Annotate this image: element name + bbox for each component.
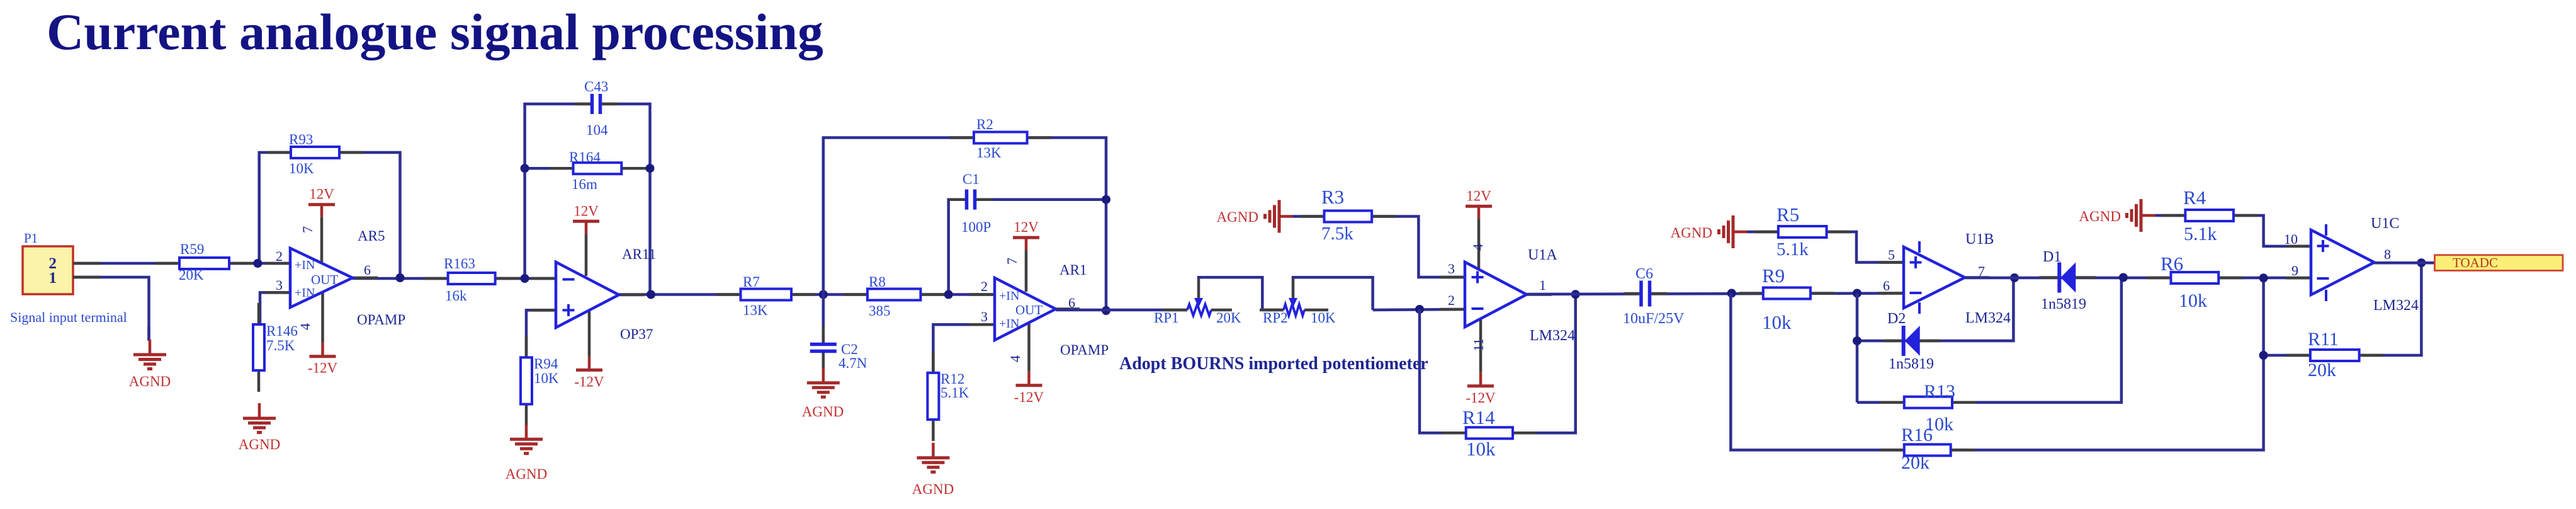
wire AR5 feedback loop via R93: [259, 152, 400, 278]
svg-text:R9: R9: [1762, 265, 1785, 287]
node R164 right: [646, 164, 655, 173]
svg-text:R2: R2: [976, 117, 993, 132]
svg-text:AGND: AGND: [912, 481, 954, 497]
node AR5 pin2: [253, 259, 262, 268]
svg-text:-12V: -12V: [1466, 390, 1496, 406]
svg-text:5.1k: 5.1k: [1777, 239, 1809, 260]
diode D2 1n5819: [1884, 340, 1904, 343]
svg-text:16k: 16k: [445, 288, 467, 304]
svg-text:104: 104: [586, 122, 608, 138]
svg-text:U1B: U1B: [1965, 231, 1994, 248]
op-amp U1C: [2286, 245, 2311, 248]
resistor R6: [2147, 277, 2171, 280]
svg-text:6: 6: [1883, 278, 1890, 294]
node U1C pin9: [2259, 273, 2268, 282]
svg-text:12V: 12V: [309, 186, 334, 202]
svg-text:R7: R7: [743, 274, 760, 290]
node R8/C1/AR1 pin2: [944, 290, 953, 299]
node U1A pin2: [1415, 305, 1424, 314]
wire U1B output to D1 to R6 to U1C pin9: [1965, 277, 2311, 280]
svg-text:LM324: LM324: [1530, 328, 1575, 344]
svg-text:C43: C43: [584, 79, 608, 94]
svg-text:100P: 100P: [961, 219, 991, 235]
svg-text:R3: R3: [1321, 186, 1344, 208]
svg-text:Adopt BOURNS imported potentio: Adopt BOURNS imported potentiometer: [1119, 354, 1428, 374]
svg-text:C6: C6: [1635, 266, 1653, 282]
wire RP1 wiper bridge: [1199, 277, 1262, 310]
potentiometer RP1: [1163, 309, 1187, 312]
node D1 cathode / R13: [2119, 273, 2128, 282]
node R164 left: [521, 164, 529, 173]
svg-text:5: 5: [1888, 247, 1895, 263]
wire R164 row: [525, 167, 650, 170]
svg-text:10k: 10k: [2179, 290, 2207, 311]
svg-text:AGND: AGND: [1671, 225, 1712, 241]
svg-text:2: 2: [1448, 292, 1455, 308]
op-amp AR1: [969, 293, 995, 296]
svg-text:AR1: AR1: [1059, 262, 1087, 278]
svg-text:7.5k: 7.5k: [1321, 224, 1353, 244]
wire R3 to U1A pin3: [1293, 217, 1465, 278]
svg-text:RP1: RP1: [1154, 310, 1179, 326]
wire R4 to U1C pin10: [2155, 215, 2311, 246]
svg-text:LM324: LM324: [2373, 297, 2419, 314]
svg-text:12V: 12V: [573, 203, 599, 219]
wire OP37 non-inverting input to R94: [526, 310, 556, 357]
capacitor C43: [590, 92, 602, 116]
svg-text:-12V: -12V: [574, 374, 604, 389]
svg-text:385: 385: [869, 303, 891, 319]
wire AR1 output to potentiometer chain to U1A pin2: [1056, 309, 1187, 312]
svg-text:3: 3: [1448, 261, 1455, 277]
ground AGND (R146): [258, 403, 261, 418]
svg-text:U1C: U1C: [2371, 215, 2399, 232]
svg-text:R164: R164: [569, 149, 601, 165]
svg-text:AGND: AGND: [1217, 209, 1258, 225]
node AR5 output: [396, 273, 405, 282]
ground AGND (R12): [932, 443, 935, 458]
svg-text:4.7N: 4.7N: [839, 355, 867, 371]
svg-text:3: 3: [276, 277, 283, 293]
svg-text:10K: 10K: [1311, 310, 1336, 326]
wire D2 row: [1857, 278, 2013, 341]
svg-text:7: 7: [1004, 258, 1020, 265]
svg-text:20K: 20K: [1216, 310, 1241, 326]
svg-text:1n5819: 1n5819: [2041, 296, 2086, 312]
svg-text:+IN: +IN: [999, 317, 1019, 331]
wire C2 branch: [822, 295, 825, 345]
resistor R13: [1880, 401, 1904, 404]
svg-text:AR11: AR11: [622, 246, 656, 262]
svg-text:R11: R11: [2308, 329, 2339, 350]
svg-text:9: 9: [2291, 263, 2298, 278]
capacitor C6: [1639, 279, 1652, 309]
svg-text:10uF/25V: 10uF/25V: [1623, 311, 1685, 327]
svg-text:R59: R59: [180, 241, 204, 257]
svg-text:OPAMP: OPAMP: [357, 312, 405, 328]
svg-text:4: 4: [1470, 244, 1486, 251]
ground AGND (C2): [822, 368, 825, 383]
wire D2 loop and R13 drop: [1856, 294, 1859, 403]
svg-text:+IN: +IN: [295, 258, 315, 272]
wire RP2 wiper bridge: [1293, 277, 1373, 310]
wire AR5 pin3 to R146: [260, 292, 290, 324]
wire R16 bottom run: [1731, 278, 2263, 450]
svg-text:10k: 10k: [1466, 438, 1496, 460]
svg-text:OUT: OUT: [1015, 302, 1042, 317]
svg-text:R163: R163: [444, 256, 475, 272]
svg-text:R93: R93: [289, 132, 313, 147]
svg-text:4: 4: [1007, 355, 1023, 362]
resistor R3: [1301, 215, 1325, 218]
resistor R16: [1880, 449, 1904, 452]
node U1C output: [2417, 258, 2426, 267]
svg-text:R146: R146: [266, 323, 298, 339]
svg-text:AGND: AGND: [2079, 209, 2121, 224]
resistor R163: [424, 277, 448, 280]
svg-text:20K: 20K: [179, 267, 204, 283]
wire R2 feedback loop: [823, 138, 1106, 311]
svg-text:11: 11: [1471, 338, 1486, 352]
resistor R59: [155, 262, 179, 265]
svg-text:7: 7: [300, 226, 315, 233]
svg-text:OUT: OUT: [311, 272, 338, 287]
svg-text:OPAMP: OPAMP: [1060, 342, 1109, 358]
power -12V (U1A): [1479, 372, 1483, 386]
node OP37 output: [647, 290, 655, 299]
wire R14 feedback loop: [1420, 294, 1576, 433]
connector P1: [23, 246, 73, 294]
svg-text:-12V: -12V: [308, 360, 338, 376]
svg-text:R5: R5: [1777, 203, 1799, 226]
svg-text:AGND: AGND: [239, 437, 280, 452]
svg-text:R4: R4: [2183, 186, 2206, 209]
ground AGND rotated (R4): [2141, 214, 2156, 217]
svg-text:2: 2: [981, 278, 988, 294]
svg-text:3: 3: [981, 309, 988, 324]
svg-text:P1: P1: [24, 231, 38, 246]
svg-text:10: 10: [2284, 231, 2298, 247]
svg-text:13K: 13K: [743, 302, 768, 318]
svg-text:RP2: RP2: [1263, 310, 1288, 326]
resistor R9: [1739, 292, 1763, 295]
power +12V (AR1): [1025, 237, 1028, 250]
svg-text:4: 4: [297, 323, 313, 330]
wire U1C output to TOADC: [2375, 261, 2435, 265]
op-amp U1B: [1878, 261, 1904, 264]
resistor R146: [257, 303, 261, 324]
svg-text:+IN: +IN: [295, 286, 315, 300]
node C6/R9/R16: [1727, 289, 1736, 298]
svg-text:2: 2: [276, 248, 283, 264]
node OP37 inverting input: [521, 274, 529, 283]
ground AGND rotated (R5): [1733, 231, 1748, 234]
resistor R8: [844, 293, 867, 296]
svg-text:5.1K: 5.1K: [941, 385, 969, 401]
node R11 left: [2259, 351, 2268, 360]
svg-text:10K: 10K: [534, 370, 559, 386]
svg-text:U1A: U1A: [1528, 247, 1557, 263]
wire OP37 feedback loop via R164 and C43: [525, 104, 650, 295]
svg-text:1: 1: [1539, 277, 1546, 293]
wire C1 branch: [949, 200, 1106, 295]
resistor R7: [717, 293, 741, 296]
svg-text:5.1k: 5.1k: [2184, 224, 2217, 244]
svg-text:TOADC: TOADC: [2453, 255, 2498, 270]
wire R5 to U1B pin5: [1748, 232, 1904, 263]
svg-text:Signal input terminal: Signal input terminal: [10, 309, 127, 325]
svg-text:6: 6: [1068, 295, 1075, 311]
diode D1 1n5819: [2039, 276, 2059, 279]
node U1B pin6: [1853, 289, 1861, 298]
wire OP37 output to R7 to R8 to AR1 pin2: [619, 293, 995, 296]
wire R11 feedback loop: [2264, 263, 2422, 355]
svg-text:10k: 10k: [1762, 311, 1792, 333]
ground AGND (P1): [147, 326, 150, 341]
resistor R4: [2161, 214, 2185, 217]
svg-text:1: 1: [49, 270, 57, 287]
resistor R11: [2286, 354, 2310, 357]
svg-text:Current analogue signal proces: Current analogue signal processing: [47, 3, 823, 60]
svg-text:16m: 16m: [572, 176, 597, 192]
node R7/R8/C2/R2: [819, 290, 828, 299]
svg-text:AGND: AGND: [802, 404, 844, 420]
capacitor C2: [808, 343, 839, 353]
op-amp U1A: [1440, 276, 1465, 279]
ground AGND rotated (R3): [1279, 215, 1294, 218]
svg-text:6: 6: [364, 262, 371, 278]
power +12V (OP37): [585, 221, 588, 234]
svg-text:R13: R13: [1924, 381, 1955, 402]
resistor R164: [550, 167, 573, 170]
svg-text:+IN: +IN: [999, 289, 1019, 303]
node U1B output: [2010, 273, 2019, 282]
power +12V (AR5): [320, 205, 324, 217]
potentiometer RP2: [1260, 309, 1284, 312]
svg-text:7.5K: 7.5K: [266, 338, 295, 353]
node AR1 output: [1102, 306, 1110, 315]
node C1 right: [1102, 195, 1110, 204]
wire AR5 output to R163 to OP37 inverting input: [353, 277, 556, 280]
svg-text:8: 8: [2384, 246, 2391, 262]
resistor R94: [525, 336, 528, 357]
resistor R5: [1754, 231, 1778, 234]
svg-text:12V: 12V: [1014, 219, 1039, 235]
svg-text:R6: R6: [2161, 253, 2183, 275]
svg-text:12V: 12V: [1466, 188, 1491, 203]
resistor R14: [1442, 432, 1466, 435]
svg-text:10k: 10k: [1925, 414, 1953, 435]
power +12V (U1A): [1477, 206, 1481, 219]
svg-text:1n5819: 1n5819: [1889, 356, 1934, 372]
wire U1A output to C6 to R9 to U1B pin6: [1527, 294, 1904, 295]
svg-text:R8: R8: [869, 274, 886, 290]
svg-text:R14: R14: [1462, 406, 1495, 428]
svg-text:10K: 10K: [289, 161, 314, 176]
node D2 anode: [1853, 336, 1861, 345]
node U1A output: [1571, 290, 1580, 299]
svg-text:R94: R94: [534, 356, 558, 372]
wire R13 row: [1857, 278, 2121, 403]
wire P1 pin1 to AGND: [73, 277, 149, 341]
op-amp OP37: [531, 277, 556, 280]
power -12V (AR5): [321, 343, 324, 357]
resistor R12: [932, 352, 935, 373]
svg-text:D2: D2: [1887, 311, 1906, 327]
port TOADC: [2435, 255, 2563, 271]
svg-text:AR5: AR5: [358, 228, 385, 244]
svg-text:D1: D1: [2043, 249, 2061, 265]
capacitor C1: [965, 188, 977, 212]
svg-text:OP37: OP37: [620, 326, 653, 342]
op-amp AR5: [265, 262, 290, 265]
svg-text:AGND: AGND: [506, 466, 547, 482]
svg-text:AGND: AGND: [129, 374, 171, 389]
wire P1 pin2 to R59 to AR5 pin2: [73, 262, 290, 265]
svg-text:13K: 13K: [976, 145, 1002, 161]
resistor R2: [950, 136, 974, 139]
power -12V (AR1): [1027, 372, 1031, 386]
svg-text:LM324: LM324: [1965, 310, 2011, 326]
svg-text:20k: 20k: [2308, 360, 2336, 380]
svg-text:20k: 20k: [1901, 452, 1929, 473]
power -12V (OP37): [588, 356, 591, 370]
ground AGND (R94): [525, 424, 528, 439]
wire AR1 pin3 to R12: [933, 324, 995, 373]
resistor R93: [267, 151, 291, 154]
svg-text:-12V: -12V: [1014, 389, 1044, 405]
svg-text:C1: C1: [963, 171, 980, 187]
